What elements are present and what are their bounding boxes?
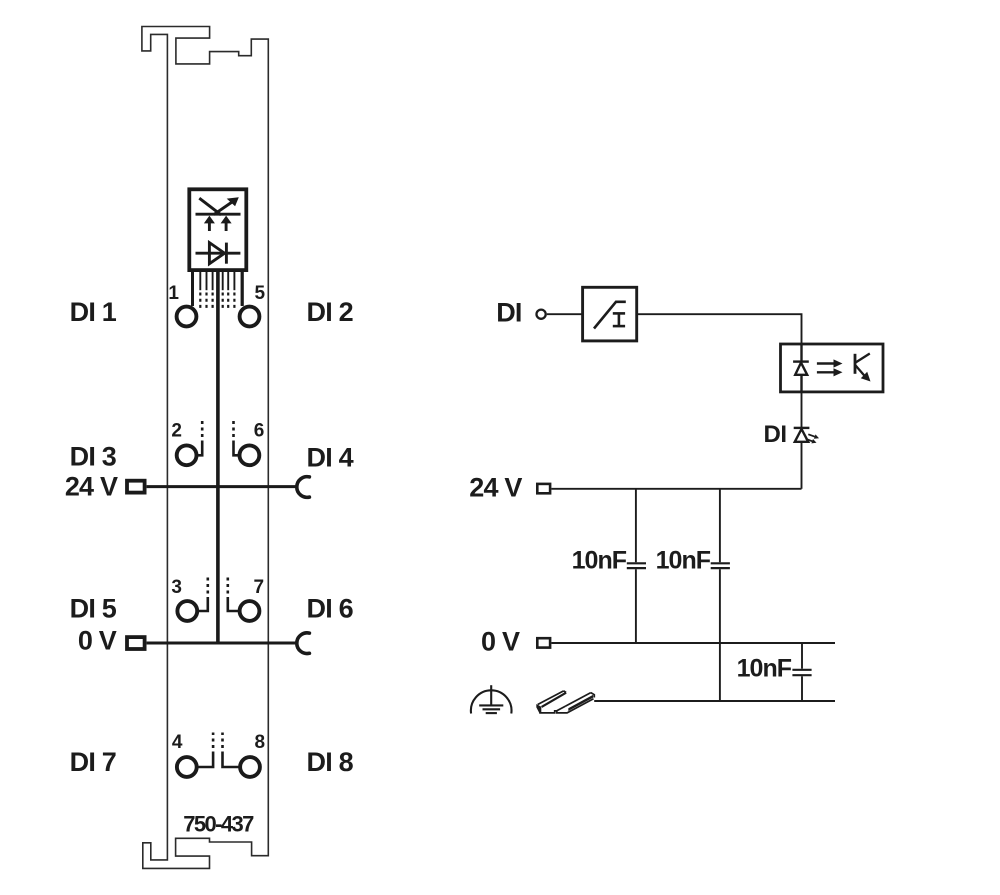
svg-text:8: 8 xyxy=(255,732,266,753)
terminal circle 2 xyxy=(177,445,197,465)
svg-text:DI 3: DI 3 xyxy=(70,442,117,472)
module outline 750-437 housing xyxy=(142,27,268,869)
contact wire of terminal 7 xyxy=(228,577,238,611)
terminal circle 3 xyxy=(177,601,197,621)
wire DI LED to 24V rail xyxy=(801,442,803,489)
optocoupler LED xyxy=(793,344,809,392)
wire filter box to optocoupler xyxy=(637,314,802,344)
row1 wire box to terminal 1 xyxy=(191,272,194,306)
svg-text:4: 4 xyxy=(172,732,183,753)
optocoupler U2 box xyxy=(781,344,884,392)
LED indicator box xyxy=(189,189,246,270)
ramp symbol in filter box xyxy=(594,302,626,329)
capacitor C1 10nF xyxy=(627,489,646,643)
terminal circle 4 xyxy=(177,757,197,777)
earth ground symbol xyxy=(471,685,512,713)
svg-text:2: 2 xyxy=(171,420,182,441)
terminal circle 6 xyxy=(240,445,260,465)
24V field terminal square left xyxy=(127,481,145,493)
terminal circle 8 xyxy=(240,757,260,777)
svg-text:3: 3 xyxy=(171,577,182,598)
contact wire of terminal 3 xyxy=(199,577,208,611)
contact wire of terminal 8 xyxy=(223,733,239,768)
contact wire of terminal 6 xyxy=(234,421,239,456)
DI input terminal circle xyxy=(537,310,546,319)
svg-text:10nF: 10nF xyxy=(656,547,711,575)
0V rail wire xyxy=(551,642,835,644)
24V rail wire xyxy=(551,488,801,490)
current I symbol in filter box xyxy=(613,313,625,326)
earth rail wire xyxy=(594,700,835,702)
svg-text:DI 5: DI 5 xyxy=(70,594,117,624)
svg-text:6: 6 xyxy=(254,420,265,441)
0V field terminal square left xyxy=(127,637,145,649)
svg-text:0 V: 0 V xyxy=(481,627,520,657)
optocoupler light arrows xyxy=(817,359,843,376)
capacitor C2 10nF xyxy=(711,489,730,701)
LED emission arrows xyxy=(806,434,819,443)
24V terminal square right xyxy=(537,484,550,493)
svg-text:DI 1: DI 1 xyxy=(70,297,117,327)
wire optocoupler to DI LED xyxy=(801,392,803,428)
svg-text:DI 7: DI 7 xyxy=(70,747,116,777)
contact wire of terminal 4 xyxy=(198,733,213,768)
svg-text:DI 6: DI 6 xyxy=(307,594,354,624)
svg-text:10nF: 10nF xyxy=(737,654,792,682)
svg-text:0 V: 0 V xyxy=(78,626,117,656)
svg-text:24 V: 24 V xyxy=(469,472,522,502)
0V feed wire left xyxy=(147,642,296,645)
svg-text:DI: DI xyxy=(764,421,787,448)
svg-text:7: 7 xyxy=(254,577,265,598)
0V terminal square right xyxy=(537,638,550,647)
0V power jumper contact arc xyxy=(297,633,310,654)
contact wire of terminal 2 xyxy=(198,421,202,456)
input filter box U1 xyxy=(583,287,637,341)
24V power jumper contact arc xyxy=(297,477,310,498)
svg-text:1: 1 xyxy=(168,283,179,304)
capacitor C3 10nF xyxy=(792,643,811,701)
wire DI to filter box xyxy=(547,313,583,315)
svg-text:DI 8: DI 8 xyxy=(307,747,354,777)
bus pins below LED box xyxy=(193,272,243,308)
svg-text:DI: DI xyxy=(496,297,521,327)
svg-text:5: 5 xyxy=(255,283,266,304)
DIN rail symbol xyxy=(536,691,594,713)
terminal circle 1 xyxy=(177,307,197,327)
diode in LED box xyxy=(196,243,241,264)
LED arrow symbol (reflex light barrier) xyxy=(196,197,241,231)
terminal circle 5 xyxy=(240,307,260,327)
svg-text:24 V: 24 V xyxy=(65,472,118,502)
terminal circle 7 xyxy=(240,601,260,621)
internal bus wire xyxy=(216,272,220,643)
24V feed wire left xyxy=(147,485,296,488)
row1 wire box to terminal 5 xyxy=(241,272,244,306)
svg-text:DI 2: DI 2 xyxy=(307,297,353,327)
svg-text:750-437: 750-437 xyxy=(183,811,254,836)
svg-text:DI 4: DI 4 xyxy=(307,443,354,473)
DI status LED D1 xyxy=(794,428,810,442)
optocoupler phototransistor xyxy=(855,354,871,382)
svg-text:10nF: 10nF xyxy=(572,547,627,575)
